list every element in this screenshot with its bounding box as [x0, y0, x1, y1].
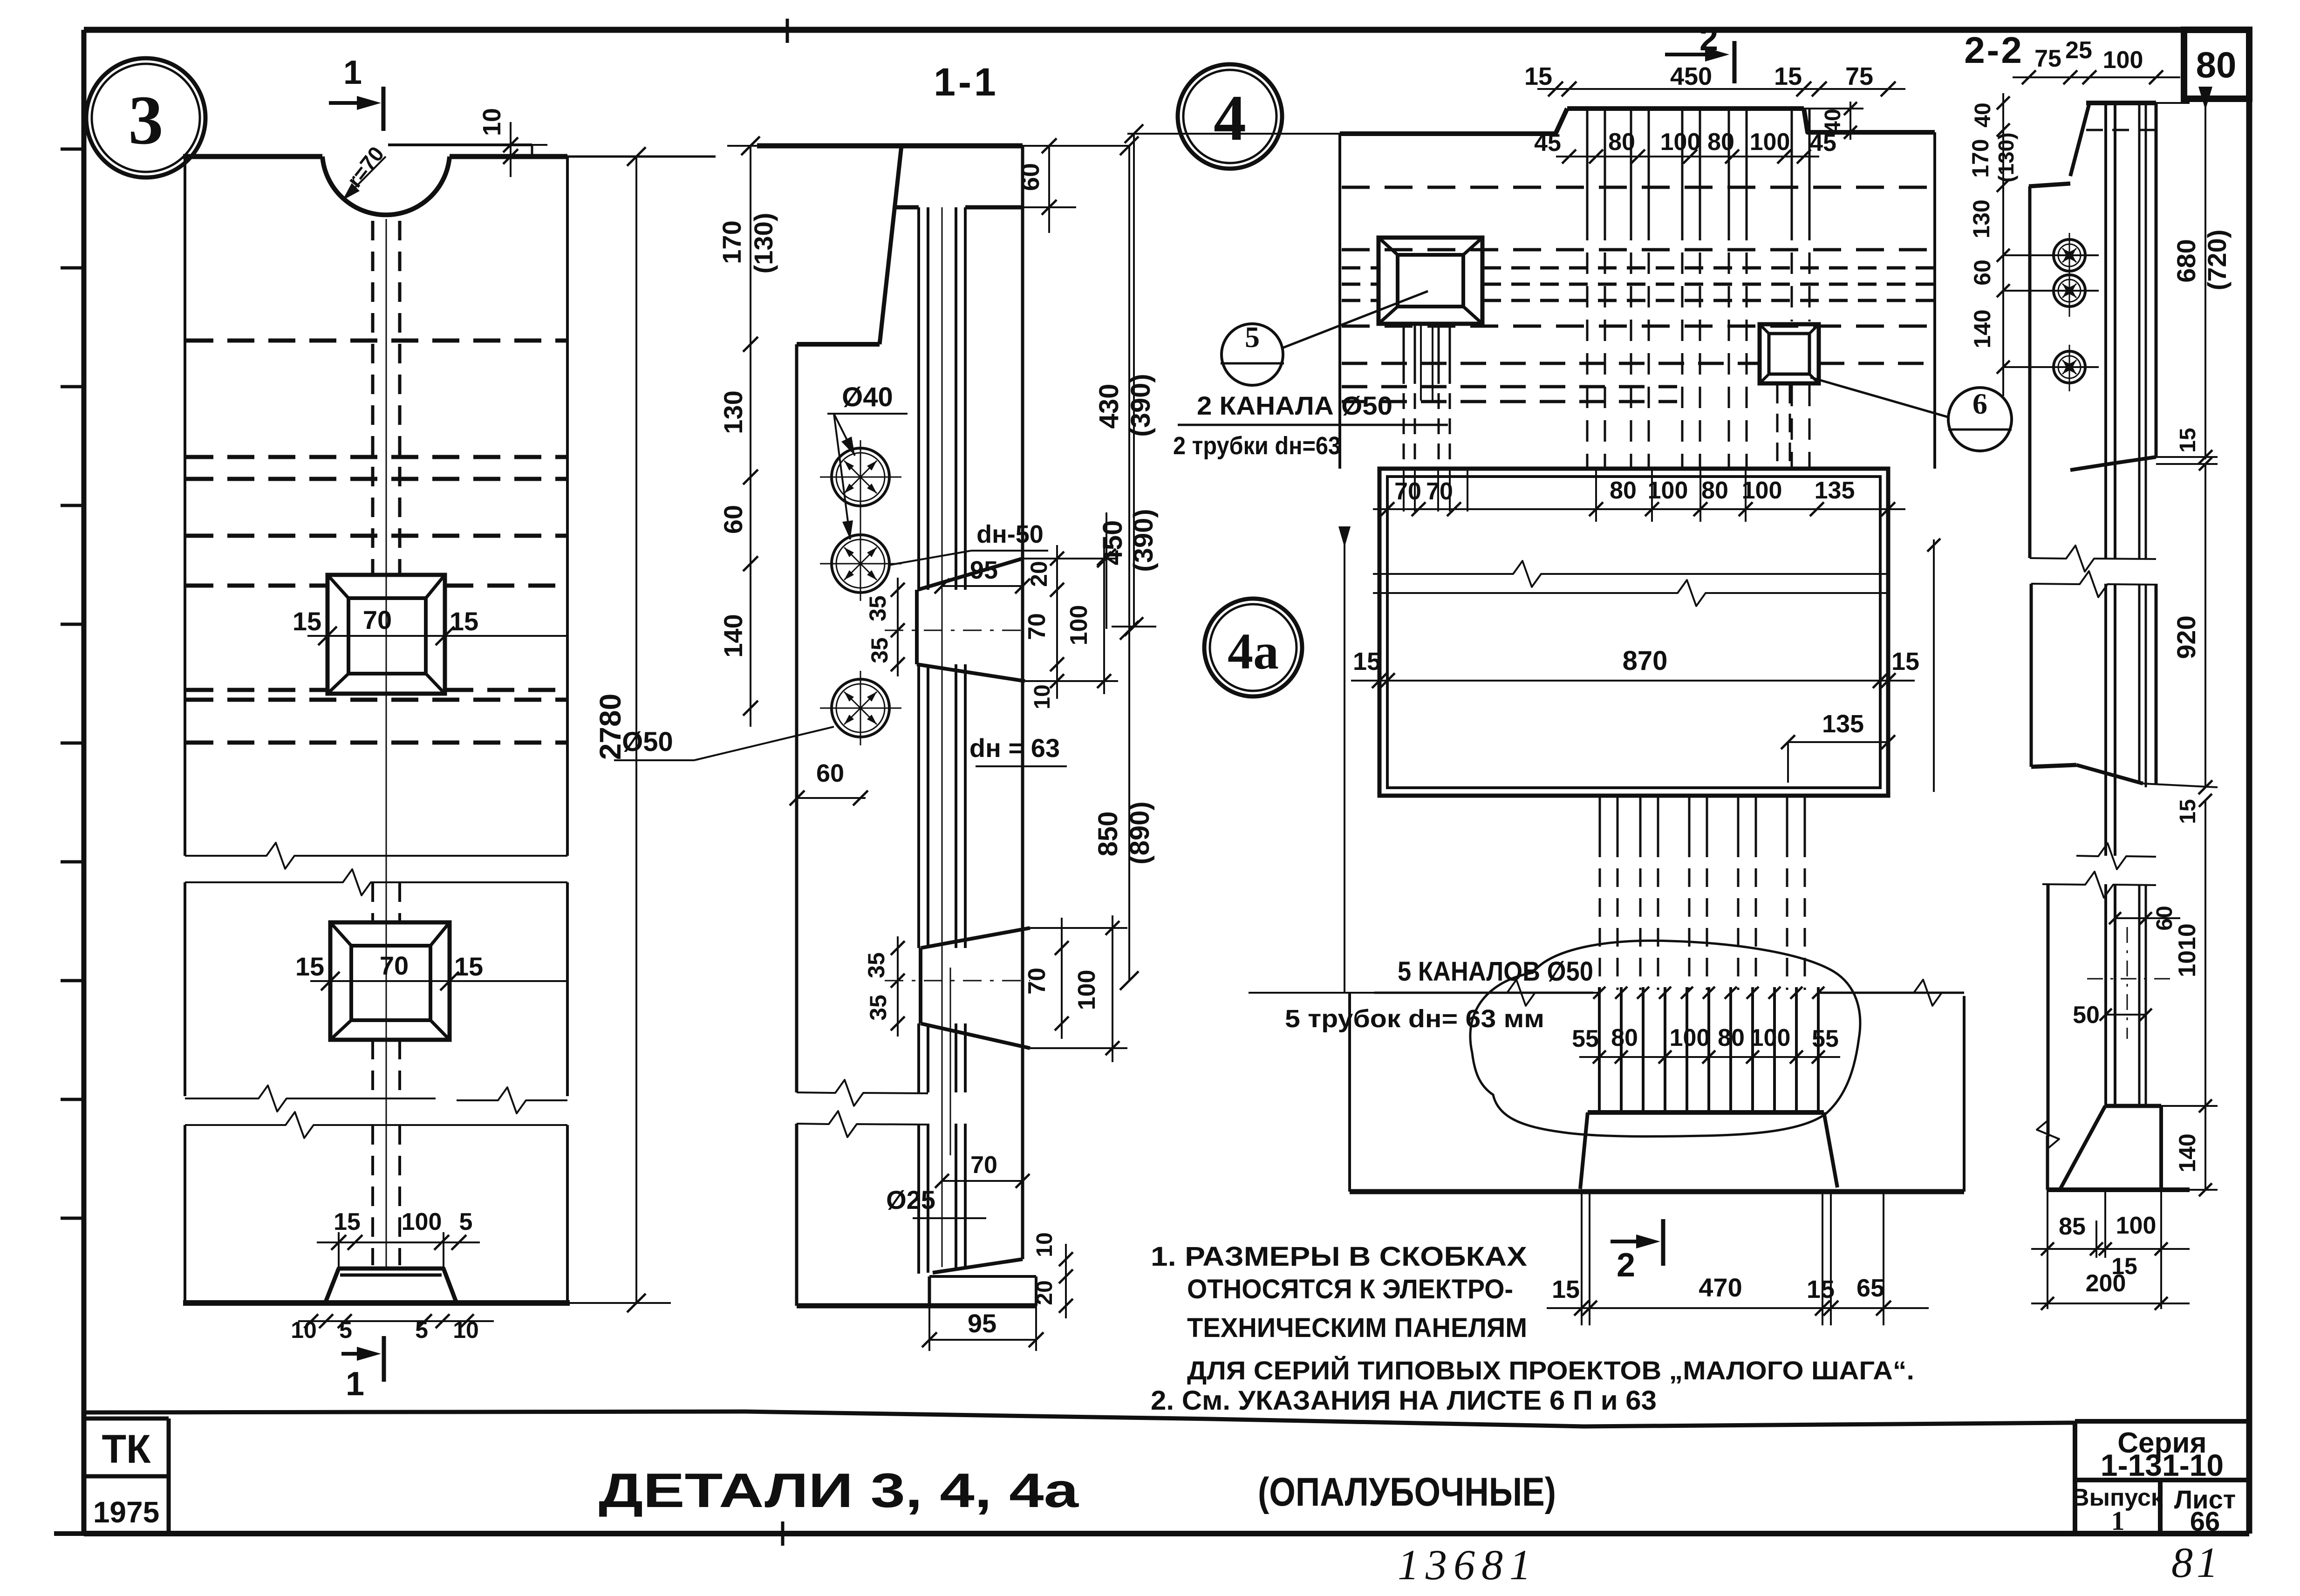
panel 3 part2 top break	[185, 869, 567, 895]
part1 bottom step	[2070, 457, 2156, 470]
svg-text:15: 15	[2176, 799, 2200, 824]
balloon 6	[1948, 388, 2012, 451]
window opening inner	[1387, 477, 1880, 788]
svg-text:15: 15	[295, 952, 324, 981]
wall 1-1 upper-left sloped face	[880, 146, 901, 344]
svg-text:60: 60	[1969, 259, 1995, 286]
svg-text:(890): (890)	[1125, 801, 1155, 864]
svg-text:1: 1	[2111, 1506, 2125, 1536]
wall 2-2 part2 top break	[2031, 571, 2156, 597]
wall 2-2 part3 left break	[2037, 1118, 2059, 1151]
wall 1-1 part2 top break	[797, 1111, 928, 1137]
dim 15 100 5 above trapezoid	[317, 1241, 480, 1243]
sheet border frame	[84, 27, 2249, 33]
channel stubs below window	[1599, 796, 1601, 839]
svg-text:100: 100	[2103, 47, 2143, 74]
svg-text:(130): (130)	[1994, 132, 2018, 182]
svg-text:2: 2	[1699, 20, 1718, 58]
wall 2-2 left face part1	[2028, 186, 2032, 558]
svg-text:10: 10	[478, 108, 506, 136]
dimension 2780	[635, 157, 637, 1303]
extension stubs above dim chain	[1403, 469, 1405, 512]
stamp TK 1975 box	[84, 1417, 169, 1421]
svg-text:70: 70	[380, 951, 409, 980]
svg-text:20: 20	[1032, 1280, 1057, 1305]
dim 40 step	[1804, 108, 1863, 109]
svg-text:10: 10	[291, 1317, 317, 1343]
border fold marks top and bottom	[786, 19, 789, 43]
svg-text:Ø40: Ø40	[842, 382, 893, 412]
svg-text:80: 80	[2196, 44, 2237, 85]
svg-text:15: 15	[334, 1208, 361, 1235]
svg-text:4а: 4а	[1228, 623, 1279, 680]
circle axes	[860, 440, 861, 601]
window opening outer	[1379, 469, 1888, 796]
svg-text:35: 35	[867, 637, 893, 663]
svg-text:dн = 63: dн = 63	[969, 733, 1060, 763]
svg-text:170: 170	[717, 220, 746, 264]
socket box 1 inner	[348, 598, 426, 674]
left border fold ticks	[61, 148, 85, 151]
dim 70 right of taper2	[1061, 918, 1063, 1039]
dim 10 5 5 10 below trapezoid	[298, 1320, 494, 1322]
svg-text:5 КАНАЛОВ Ø50: 5 КАНАЛОВ Ø50	[1398, 956, 1593, 987]
dim 1010	[2204, 800, 2206, 1106]
svg-text:2 трубки dн=63: 2 трубки dн=63	[1173, 432, 1341, 460]
svg-text:55: 55	[1812, 1025, 1839, 1052]
part2 bottom step	[2031, 765, 2076, 767]
channel hidden lines part2 lower	[371, 1040, 374, 1096]
panel 3 right edge part 1	[566, 157, 569, 856]
svg-text:170: 170	[1967, 139, 1993, 177]
svg-text:140: 140	[718, 614, 748, 657]
svg-text:(390): (390)	[1126, 374, 1156, 437]
wall 1-1 left face part1	[795, 344, 799, 1092]
panel 3 right edge part 3	[566, 1125, 569, 1303]
channel wall pair right	[955, 207, 957, 590]
leader balloon5 to socket	[1281, 291, 1428, 348]
socket box 2 outer	[330, 922, 450, 1040]
semicircular notch r=70	[322, 157, 450, 215]
wall 1-1 right face	[1021, 146, 1024, 1259]
svg-text:1010: 1010	[2174, 923, 2201, 977]
svg-text:ТК: ТК	[102, 1427, 151, 1472]
dim 850 890 line	[1128, 146, 1130, 981]
section mark 2 bottom	[1611, 1240, 1653, 1243]
svg-text:60: 60	[1017, 163, 1044, 191]
hidden channel rows part 1	[186, 339, 566, 343]
svg-text:680: 680	[2171, 239, 2201, 282]
socket 5 channel pairs below	[1403, 324, 1405, 368]
wall 2-2 sloped left face	[2070, 103, 2089, 176]
wall 1-1 ledge y739	[797, 342, 880, 347]
dim 15 70 15 box2	[310, 980, 567, 982]
svg-text:100: 100	[1742, 477, 1782, 504]
dim 680 720	[2204, 103, 2206, 459]
svg-text:55: 55	[1572, 1025, 1599, 1052]
svg-text:ДЛЯ СЕРИЙ ТИПОВЫХ ПРОЕКТО: ДЛЯ СЕРИЙ ТИПОВЫХ ПРОЕКТОВ „МАЛОГО ШАГА“…	[1187, 1356, 1914, 1385]
svg-text:1: 1	[343, 54, 362, 91]
dim 100 right of taper1	[1103, 545, 1105, 694]
svg-text:2-2: 2-2	[1964, 29, 2024, 71]
svg-text:(390): (390)	[1128, 509, 1159, 572]
wall 2-2 bottom edge	[2047, 1187, 2190, 1192]
svg-text:450: 450	[1098, 520, 1128, 566]
socket 6 bevels	[1760, 324, 1769, 334]
panel 4 left edge	[1338, 134, 1341, 469]
svg-text:75: 75	[2034, 45, 2061, 72]
svg-text:130: 130	[1968, 199, 1994, 238]
leader balloon6 to socket	[1810, 377, 1949, 417]
dim 15 70 15 box1	[307, 635, 567, 637]
svg-text:15: 15	[1353, 648, 1381, 675]
wall 2-2 part1 break	[2030, 546, 2156, 572]
svg-text:(130): (130)	[749, 213, 778, 274]
panel 3 part2 bottom break	[185, 1085, 436, 1112]
dim 35 35 taper1	[897, 578, 899, 676]
panel 3 left edge part 3	[184, 1125, 186, 1303]
svg-text:80: 80	[1707, 129, 1734, 156]
svg-text:3: 3	[129, 82, 164, 159]
dim 15 second	[2199, 794, 2212, 807]
projection line left of bottom part	[1344, 540, 1345, 993]
dim 60 top right	[1023, 206, 1076, 208]
svg-text:2. См. УКАЗАНИЯ НА ЛИСТЕ 6: 2. См. УКАЗАНИЯ НА ЛИСТЕ 6 П и 63	[1151, 1385, 1657, 1416]
dim 35 35 taper2	[897, 936, 899, 1037]
svg-text:10: 10	[1032, 1232, 1057, 1257]
channel pairs part3	[2104, 884, 2107, 1106]
dim chain 55 80 100 80 100 55	[1579, 1056, 1840, 1058]
socket 5 bevels	[1379, 238, 1398, 255]
dim 60 below circle3	[797, 797, 866, 799]
channel verticals bottom part	[1598, 987, 1601, 1112]
svg-text:470: 470	[1699, 1273, 1742, 1302]
svg-text:ОТНОСЯТСЯ К ЭЛЕКТРО-: ОТНОСЯТСЯ К ЭЛЕКТРО-	[1187, 1274, 1513, 1304]
wall 2-2 top edge	[2086, 101, 2156, 105]
svg-text:35: 35	[865, 995, 891, 1021]
wall 1-1 bottom edge	[797, 1303, 929, 1309]
panel 4 bottom part right edge	[1963, 996, 1966, 1192]
dim 450 390 left of panel4	[1133, 134, 1135, 627]
pipe circles 2-2	[2054, 239, 2085, 271]
top dim line detail 4	[1537, 88, 1905, 90]
svg-text:430: 430	[1094, 384, 1124, 429]
socket 6 outer	[1760, 324, 1819, 383]
channel hidden lines part2 upper	[371, 882, 374, 922]
svg-text:450: 450	[1670, 62, 1712, 90]
dim 100 right of taper2	[1112, 915, 1113, 1062]
panel 3 left edge part 1	[184, 157, 186, 856]
svg-text:10: 10	[1030, 684, 1055, 709]
svg-text:15: 15	[1807, 1275, 1835, 1303]
svg-text:140: 140	[1969, 309, 1995, 348]
svg-text:50: 50	[2073, 1002, 2100, 1029]
top dim line 2-2	[2013, 76, 2180, 78]
dim 140 bottom	[2204, 1106, 2206, 1190]
panel 4 bottom part left edge	[1348, 993, 1351, 1192]
title strip top line	[84, 1412, 2075, 1426]
svg-text:Ø25: Ø25	[886, 1185, 935, 1214]
left dim chain 1-1	[750, 146, 751, 727]
channel axis 1-1	[942, 207, 943, 1267]
svg-text:15: 15	[1774, 62, 1802, 90]
svg-text:15: 15	[1524, 62, 1552, 90]
svg-text:80: 80	[1610, 477, 1637, 504]
svg-text:80: 80	[1718, 1024, 1745, 1051]
wall 1-1 left face part2	[795, 1124, 799, 1306]
svg-text:135: 135	[1822, 710, 1864, 738]
dim chain below window top	[1373, 508, 1905, 510]
bottom trapezoid insert	[325, 1269, 457, 1303]
section mark 1 top	[329, 101, 374, 105]
svg-text:(720): (720)	[2202, 230, 2232, 291]
wall 1-1 top edge	[757, 143, 1023, 149]
svg-text:100: 100	[1065, 605, 1092, 646]
svg-text:60: 60	[816, 759, 844, 787]
bottom trapezoid big	[1588, 1110, 1824, 1115]
top dimension line 1-1	[727, 145, 1129, 147]
svg-text:5: 5	[415, 1317, 428, 1343]
svg-text:140: 140	[2174, 1133, 2200, 1172]
page number box 80	[2184, 30, 2249, 99]
panel 3 top edge	[183, 154, 322, 159]
bottom taper slot 3	[928, 1276, 931, 1306]
svg-text:100: 100	[1660, 129, 1701, 156]
svg-text:65: 65	[1856, 1274, 1884, 1302]
wall 2-2 right face part1	[2155, 103, 2158, 457]
leader r=70	[342, 157, 386, 200]
wall 2-2 left face part3	[2047, 884, 2050, 1137]
wall 2-2 ledge	[2029, 184, 2070, 186]
svg-text:70: 70	[1394, 478, 1421, 505]
detail 3 balloon	[86, 58, 205, 177]
channel pairs top of panel 4	[1586, 109, 1589, 219]
svg-text:Ø50: Ø50	[622, 727, 673, 757]
dim 920	[2204, 464, 2206, 787]
dim 10 20 bottom right	[1065, 1244, 1067, 1318]
svg-text:60: 60	[718, 505, 748, 534]
wall 2-2 part3 top break	[2042, 872, 2156, 898]
svg-text:15: 15	[454, 952, 483, 981]
svg-text:200: 200	[2086, 1270, 2126, 1297]
socket 6 inner	[1769, 334, 1809, 374]
taper slot 2	[921, 928, 1030, 948]
svg-text:35: 35	[865, 595, 891, 621]
pipe circle O50 no.3	[832, 679, 889, 737]
svg-text:130: 130	[718, 390, 748, 434]
channel axis part3	[2127, 927, 2128, 1039]
panel 3 lip line	[388, 143, 532, 146]
detail 4 balloon	[1178, 64, 1282, 169]
svg-text:850: 850	[1093, 812, 1123, 857]
svg-text:85: 85	[2059, 1213, 2086, 1240]
wall 2-2 left face part2	[2030, 584, 2033, 767]
dim 95 (mid)	[942, 585, 1023, 587]
left dim chain 2-2	[2002, 93, 2004, 396]
svg-text:(ОПАЛУБОЧНЫЕ): (ОПАЛУБОЧНЫЕ)	[1258, 1470, 1556, 1514]
svg-text:4: 4	[1214, 82, 1246, 154]
svg-text:40: 40	[1821, 109, 1845, 133]
svg-text:80: 80	[1611, 1024, 1638, 1051]
channel pair part2	[917, 1124, 920, 1274]
dim 60 part3	[2115, 917, 2180, 919]
svg-text:10: 10	[453, 1317, 479, 1343]
svg-text:70: 70	[970, 1152, 997, 1179]
svg-text:100: 100	[1750, 129, 1790, 156]
svg-text:5: 5	[1245, 321, 1260, 354]
svg-text:5: 5	[339, 1317, 352, 1343]
channel wall pairs 2-2	[2104, 103, 2107, 558]
svg-text:100: 100	[1670, 1024, 1710, 1051]
svg-text:2: 2	[1617, 1247, 1635, 1284]
svg-text:100: 100	[1750, 1024, 1791, 1051]
channel pairs part2	[2104, 584, 2107, 856]
bottom trapezoid 2-2	[2105, 1104, 2161, 1108]
socket box 2 bevels	[330, 922, 351, 946]
wall 2-2 part2 bottom break	[2076, 843, 2156, 869]
window break lines	[1373, 561, 1887, 587]
svg-text:135: 135	[1815, 477, 1855, 504]
section mark 2 top	[1665, 53, 1719, 56]
slot shoulder left	[895, 205, 919, 210]
svg-text:1-131-10: 1-131-10	[2101, 1448, 2224, 1482]
cloud outline	[1470, 941, 1860, 1136]
svg-text:1: 1	[346, 1365, 364, 1403]
detail 4a balloon	[1204, 599, 1302, 696]
panel 3 right edge part 2	[566, 882, 569, 1096]
svg-text:66: 66	[2190, 1507, 2220, 1537]
svg-text:75: 75	[1845, 62, 1873, 90]
svg-text:920: 920	[2171, 615, 2201, 659]
svg-text:15: 15	[1891, 648, 1919, 675]
svg-text:15: 15	[293, 607, 321, 636]
dim 95 bottom	[929, 1339, 1036, 1341]
svg-text:6: 6	[1972, 387, 1987, 420]
panel 3 part3 top break	[185, 1112, 567, 1138]
svg-text:100: 100	[1073, 970, 1100, 1010]
svg-text:1. РАЗМЕРЫ В СКОБКАХ: 1. РАЗМЕРЫ В СКОБКАХ	[1151, 1241, 1527, 1272]
taper2 axis	[885, 980, 1030, 982]
panel 4 top profile	[1340, 109, 1567, 134]
dim 85 100 below	[2031, 1248, 2190, 1250]
hidden rows detail 4	[1342, 186, 1933, 189]
socket box 1 outer	[328, 575, 445, 694]
socket6 channel dashes below	[1776, 385, 1779, 467]
svg-text:70: 70	[363, 605, 392, 634]
svg-text:2 КАНАЛА Ø50: 2 КАНАЛА Ø50	[1197, 391, 1392, 420]
chain dim 45 80 100 80 100 45	[1556, 156, 1819, 157]
svg-text:15: 15	[1552, 1275, 1580, 1303]
dim 135 window bottom right	[1788, 741, 1888, 743]
dim 70 bottom	[942, 1180, 1023, 1182]
channel wall pair left	[917, 207, 920, 590]
svg-text:13681: 13681	[1398, 1541, 1537, 1589]
panel 3 top edge extension to dim	[567, 156, 716, 158]
svg-text:80: 80	[1701, 477, 1728, 504]
svg-text:70: 70	[1024, 968, 1051, 995]
svg-text:100: 100	[2116, 1212, 2157, 1239]
panel 4 bottom edge	[1350, 1189, 1964, 1194]
panel 4 right edge	[1933, 132, 1936, 469]
channel hidden lines upper	[371, 221, 375, 575]
pipe circle O40 no.2	[832, 535, 889, 593]
taper slot 1	[918, 559, 1023, 590]
svg-text:100: 100	[402, 1208, 442, 1235]
panel 3 bottom edge	[183, 1300, 570, 1306]
dim 50 part3	[2106, 1014, 2146, 1016]
channel hidden lines part3	[371, 1125, 374, 1265]
svg-text:81: 81	[2171, 1539, 2222, 1586]
svg-text:dн-50: dн-50	[976, 520, 1044, 548]
wall 1-1 part1 bottom break	[797, 1080, 928, 1106]
svg-text:40: 40	[1971, 102, 1995, 127]
panel 3 part1 bottom break	[185, 843, 567, 869]
svg-text:ДЕТАЛИ 3, 4, 4а: ДЕТАЛИ 3, 4, 4а	[599, 1464, 1079, 1518]
dim 15 870 15 window	[1351, 680, 1915, 682]
svg-text:15: 15	[450, 607, 478, 636]
svg-text:1975: 1975	[93, 1495, 159, 1529]
svg-text:70: 70	[1024, 613, 1051, 640]
svg-text:ТЕХНИЧЕСКИМ ПАНЕЛЯМ: ТЕХНИЧЕСКИМ ПАНЕЛЯМ	[1187, 1313, 1527, 1343]
balloon 5	[1222, 324, 1283, 385]
section mark 1 bottom	[341, 1352, 374, 1356]
svg-text:5: 5	[459, 1208, 473, 1235]
pipe circle O40 no.1	[832, 448, 889, 506]
svg-text:870: 870	[1623, 646, 1668, 676]
dim 200	[2031, 1303, 2190, 1304]
extension line right of window	[1933, 539, 1935, 792]
wall 2-2 right face part2	[2155, 584, 2158, 784]
slot shoulder right	[965, 205, 1023, 210]
socket 5 outer	[1379, 238, 1482, 324]
svg-text:5 трубок dн= 63 мм: 5 трубок dн= 63 мм	[1285, 1005, 1544, 1033]
taper1 axis	[885, 630, 1030, 631]
dim 20 70 10 right of taper1	[1056, 545, 1058, 699]
svg-text:15: 15	[2176, 428, 2200, 452]
channel axis line	[386, 219, 387, 1269]
dim 15 470 15 65	[1547, 1307, 1929, 1309]
socket 5 inner	[1398, 255, 1463, 307]
svg-text:95: 95	[968, 1309, 996, 1338]
socket box 2 inner	[351, 946, 430, 1020]
panel 3 left edge part 2	[184, 882, 186, 1096]
dim 15 step	[2199, 457, 2212, 471]
svg-text:25: 25	[2065, 37, 2092, 64]
hidden level line (130)	[2086, 129, 2156, 131]
svg-text:1-1: 1-1	[934, 60, 998, 104]
svg-text:100: 100	[1648, 477, 1688, 504]
svg-text:20: 20	[1026, 561, 1052, 587]
panel 4 bottom part top edge	[1249, 980, 1598, 1006]
svg-text:35: 35	[863, 952, 889, 978]
title block box	[2073, 1421, 2077, 1534]
socket box 1 bevels	[328, 575, 348, 598]
